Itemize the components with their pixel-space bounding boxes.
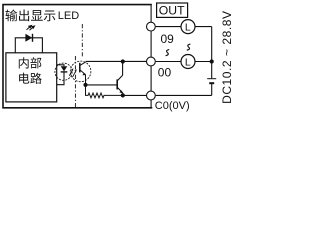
- resistor (base-emitter): [86, 85, 124, 98]
- load L2: [181, 55, 195, 69]
- wire: base wire: [86, 84, 117, 86]
- label: 输出显示LED (output indicator LED): [5, 10, 79, 22]
- node: base junction: [83, 83, 87, 87]
- svg-text:L: L: [185, 21, 191, 33]
- svg-text:09: 09: [161, 32, 175, 46]
- OUT label box: [157, 3, 188, 17]
- chain line (internal/external boundary, lower segment): [74, 56, 76, 108]
- svg-text:OUT: OUT: [159, 3, 185, 17]
- optocoupler phototransistor: [80, 62, 86, 85]
- svg-text:LED: LED: [58, 10, 79, 22]
- chain line (internal/external boundary, upper segment): [81, 24, 83, 57]
- transistor Q1 (NPN output): [117, 62, 122, 96]
- wire: display-LED loop: [15, 38, 42, 53]
- svg-text:C0(0V): C0(0V): [155, 100, 190, 112]
- optocoupler outline (dashed ellipse): [55, 61, 91, 82]
- optocoupler light arrows: [69, 68, 76, 77]
- break mark (omitted terminals, load column): [187, 44, 191, 50]
- LED (output display LED symbol): [25, 34, 32, 42]
- internal circuit box: 内部电路: [6, 53, 57, 102]
- node: emitter junction: [121, 93, 125, 97]
- optocoupler LED: [57, 65, 67, 85]
- svg-text:DC10.2 ~ 28.8V: DC10.2 ~ 28.8V: [220, 10, 234, 103]
- svg-text:L: L: [185, 56, 191, 68]
- LED emission arrows: [27, 26, 35, 31]
- battery (DC supply): [207, 79, 216, 84]
- break mark (omitted terminals, label column): [166, 50, 170, 56]
- svg-text:00: 00: [158, 66, 172, 80]
- wire: right supply rail: [211, 27, 213, 96]
- terminal 09: [147, 22, 156, 31]
- node: collector junction: [121, 59, 125, 63]
- node: rail junction at load L2: [210, 59, 214, 63]
- wire: terminal 09 to load L1: [156, 26, 212, 28]
- terminal 00: [147, 57, 156, 66]
- terminal C0: [147, 91, 156, 100]
- load L1: [181, 20, 195, 34]
- wire: collector rail to terminal 00: [86, 60, 147, 62]
- wire: emitter/common rail to terminal C0: [123, 94, 212, 96]
- wire: terminal 00 to load L2: [156, 61, 212, 63]
- PLC unit border (left/top/bottom + right terminal edge): [3, 5, 152, 108]
